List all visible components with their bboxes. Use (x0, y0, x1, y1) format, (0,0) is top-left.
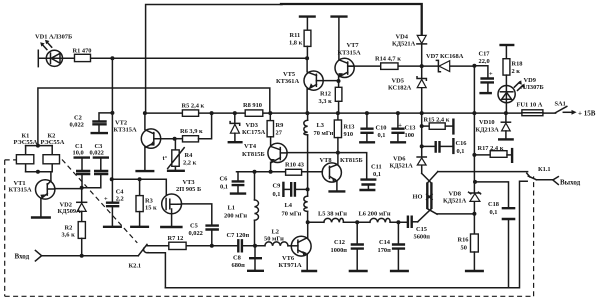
resistor R9 27 (267, 113, 283, 137)
svg-text:10,0: 10,0 (73, 150, 84, 157)
node L1 top (253, 170, 257, 174)
svg-text:VT3: VT3 (183, 179, 195, 186)
svg-text:КД521А: КД521А (443, 197, 467, 204)
svg-text:FU1 10 А: FU1 10 А (517, 102, 543, 109)
zener VD3 КС175А (230, 113, 266, 141)
node relay top (36, 144, 40, 148)
svg-text:+: + (104, 196, 108, 203)
wire y88 relay feed (38, 88, 270, 146)
ground VT3 source (160, 226, 183, 228)
svg-text:R17 2,4 к: R17 2,4 к (478, 145, 504, 152)
node C14 tap (396, 220, 400, 224)
resistor R6 3,9 к (175, 113, 212, 142)
svg-text:КД213А: КД213А (476, 126, 500, 133)
svg-text:L5 38 мГн: L5 38 мГн (318, 211, 347, 218)
svg-text:R3: R3 (145, 198, 153, 205)
wire K2.1 lower contact to bottom rail (148, 253, 166, 288)
svg-text:VT7: VT7 (347, 42, 360, 49)
node VD7 C17 (472, 64, 476, 68)
wire x421.7 vertical chain VD4..VD6 (421, 44, 423, 173)
svg-text:R5 2,4 к: R5 2,4 к (182, 103, 205, 110)
capacitor C13 100 polarized (390, 113, 415, 142)
wire emitter line y213.9 (437, 213, 474, 215)
power tap T-bar VT7 (330, 15, 347, 17)
node VT2 collector rail (143, 111, 147, 115)
resistor R16 50 (458, 234, 479, 270)
node wire y179 left (110, 177, 114, 181)
inductor L1 200 мГн (224, 172, 258, 246)
resistor R15 2,4 к with stub bar (422, 117, 454, 135)
node L4 VT6 collector (306, 220, 310, 224)
switch K2.1 (129, 244, 148, 269)
resistor R5 2,4 к (182, 103, 205, 117)
node C18 wire (473, 180, 477, 184)
transformer НО crossover top (422, 172, 438, 183)
node VD9 VD10 rail (504, 111, 508, 115)
capacitor C8 680п (232, 246, 265, 271)
wire output to connector (536, 179, 552, 181)
wire C17 corner (474, 66, 488, 78)
svg-text:C14: C14 (379, 239, 391, 246)
svg-text:C13: C13 (405, 125, 416, 132)
svg-text:680п: 680п (232, 262, 246, 269)
svg-text:C16: C16 (456, 140, 468, 147)
node C12 tap (355, 220, 359, 224)
wire VT1 base node (55, 187, 82, 190)
wire x474 vertical chain (473, 66, 475, 234)
svg-text:0,022: 0,022 (70, 122, 84, 129)
svg-text:R12: R12 (320, 91, 331, 98)
svg-text:НО: НО (413, 194, 423, 201)
svg-text:VD1 АЛ307Б: VD1 АЛ307Б (35, 34, 72, 41)
dashed shield box bottom (5, 295, 534, 297)
svg-text:5600п: 5600п (414, 234, 431, 241)
svg-text:C7 120п: C7 120п (227, 232, 250, 239)
resistor R13 910 (334, 113, 354, 153)
dashed shield box right up to K1.1 (533, 176, 535, 296)
switch SA1 (555, 101, 577, 115)
svg-text:VD3: VD3 (246, 122, 258, 129)
node C13 rail (396, 111, 400, 115)
svg-text:R13: R13 (344, 124, 355, 131)
node relay bottom (36, 170, 40, 174)
capacitor C5 0,022 (181, 204, 219, 246)
wire y179 to VT3 gate (112, 179, 167, 194)
node VD8 bottom emitter wire (472, 212, 476, 216)
svg-text:C17: C17 (479, 51, 491, 58)
wire R7 line y245.8 (147, 245, 265, 247)
svg-text:L4: L4 (285, 202, 293, 209)
LED VD1 АЛ307Б (35, 34, 75, 67)
svg-text:C11: C11 (371, 164, 382, 171)
ground VT6 emitter (301, 270, 317, 272)
wire C18 bottom to rail (508, 220, 510, 288)
svg-text:2,2 к: 2,2 к (183, 160, 197, 167)
transformer НО crossover bottom (418, 209, 437, 222)
svg-text:R16: R16 (458, 237, 470, 244)
power tap T-bar R11 (299, 15, 316, 17)
resistor R1 470 (73, 48, 92, 62)
svg-text:200 мГн: 200 мГн (224, 213, 247, 220)
capacitor C14 170п (378, 222, 409, 271)
svg-text:C9: C9 (273, 183, 281, 190)
svg-text:КТ971А: КТ971А (279, 262, 302, 269)
diode VD2 КД509А (58, 189, 87, 222)
node R1/x112 (110, 56, 114, 60)
svg-text:R11: R11 (290, 32, 301, 39)
dashed link K2 to K2.1 (62, 160, 137, 243)
zener VD7 КС168А (426, 53, 464, 72)
wire relay common top (26, 145, 53, 147)
transistor VT5 КТ361А (276, 58, 339, 113)
node C5 tap (210, 244, 214, 248)
power tap T-bar R18 (499, 44, 514, 46)
svg-text:0,1: 0,1 (220, 184, 228, 191)
svg-text:VT5: VT5 (283, 71, 295, 78)
svg-text:VD10: VD10 (479, 119, 495, 126)
svg-text:VD5: VD5 (392, 78, 404, 85)
inductor L5 38 мГн (318, 211, 347, 223)
svg-text:C10: C10 (376, 125, 387, 132)
node VT5 emitter L3 rail (305, 111, 309, 115)
svg-text:VT8: VT8 (320, 157, 332, 164)
wire C18 top feed (475, 182, 509, 208)
node R8 left VD3 (233, 111, 237, 115)
svg-text:R4: R4 (185, 152, 194, 159)
node R15 tap (420, 124, 424, 128)
inductor L4 70 мГн (282, 196, 308, 222)
svg-text:100: 100 (405, 132, 415, 139)
relay coil K2 РЭС55А (41, 132, 65, 171)
capacitor C7 120п (227, 232, 250, 253)
resistor R14 4,7 к (375, 56, 401, 70)
svg-text:910: 910 (344, 131, 354, 138)
node R9 rail (268, 111, 272, 115)
ground VD10 (498, 138, 514, 140)
diode VD8 КД521А (443, 190, 481, 204)
svg-text:15 к: 15 к (145, 205, 157, 212)
svg-text:Вход: Вход (15, 253, 30, 261)
svg-text:50 мГн: 50 мГн (264, 236, 284, 243)
svg-text:L1: L1 (228, 205, 235, 212)
svg-text:C2: C2 (74, 115, 82, 122)
svg-text:КТ815Б: КТ815Б (340, 157, 363, 164)
dashed shield box left (4, 160, 6, 296)
svg-text:0,1: 0,1 (378, 132, 386, 139)
capacitor C18 0,1 (488, 201, 515, 219)
svg-text:R7 12: R7 12 (168, 235, 184, 242)
svg-text:1000п: 1000п (331, 247, 348, 254)
svg-text:R8 910: R8 910 (243, 102, 262, 109)
node C9 L3 L4 (306, 187, 310, 191)
svg-text:2,2: 2,2 (116, 196, 124, 203)
capacitor C11 0,1 (359, 164, 381, 191)
svg-text:C12: C12 (334, 239, 345, 246)
inductor L3 70 мГн (304, 113, 334, 137)
svg-text:R2: R2 (65, 225, 73, 232)
capacitor C2 0,022 (70, 113, 113, 133)
node input R2 (80, 254, 84, 258)
transistor VT8 КТ815Б (320, 153, 363, 191)
svg-text:L2: L2 (272, 229, 279, 236)
resistor R8 910 (243, 102, 263, 116)
svg-text:R9: R9 (276, 122, 284, 129)
svg-text:+: + (398, 122, 402, 129)
LED VD9 АЛ307Б (498, 77, 544, 113)
svg-text:SA1: SA1 (555, 101, 566, 108)
svg-text:R15 2,4 к: R15 2,4 к (424, 117, 450, 124)
ground VT2 emitter (135, 170, 154, 172)
svg-text:2 к: 2 к (512, 68, 521, 75)
switch K1.1 (527, 166, 551, 180)
node x474 rail (472, 111, 476, 115)
node VT2 base R6 R4 (173, 137, 177, 141)
capacitor C16 0,1 with stub bar (422, 138, 468, 155)
svg-text:К2.1: К2.1 (129, 263, 142, 270)
inductor L6 200 мГн (359, 211, 391, 223)
transistor VT7 КТ315А (335, 17, 361, 88)
svg-text:КС182А: КС182А (388, 85, 412, 92)
svg-text:R14 4,7 к: R14 4,7 к (375, 56, 401, 63)
wire collector line y171.6 (438, 171, 528, 173)
svg-text:VD7 КС168А: VD7 КС168А (426, 53, 464, 60)
svg-text:VD8: VD8 (449, 190, 461, 197)
wire top rail thin part (146, 5, 282, 114)
transformer НО core bars (427, 182, 431, 209)
diode VD6 КД521А (390, 156, 427, 170)
svg-text:L6 200 мГн: L6 200 мГн (359, 211, 391, 218)
svg-text:КТ815Б: КТ815Б (242, 151, 265, 158)
wire bottom return rail (165, 181, 527, 288)
capacitor C10 0,1 (359, 113, 386, 142)
node C10 rail (365, 111, 369, 115)
diode VD10 КД213А (476, 113, 511, 138)
wire top rail thick part (281, 4, 422, 35)
svg-text:C8: C8 (233, 255, 241, 262)
wire VT7 emitter to R14 (348, 65, 475, 67)
ground C4 (103, 226, 122, 228)
thermistor R4 2,2 к (163, 139, 197, 170)
svg-text:0,1: 0,1 (490, 209, 498, 216)
svg-text:К1.1: К1.1 (538, 166, 551, 173)
svg-text:VD4: VD4 (396, 34, 409, 41)
svg-text:КТ315А: КТ315А (114, 127, 137, 134)
output connector Выход (553, 177, 581, 187)
wire relay common bottom to VT1 collector (26, 172, 51, 181)
node R17 tap (472, 153, 476, 157)
capacitor C9 0,1 with stub bar (273, 182, 309, 198)
input connector Вход (15, 250, 42, 261)
svg-text:170п: 170п (378, 247, 392, 254)
svg-text:0,1: 0,1 (373, 171, 381, 178)
zener VD5 КС182А (388, 77, 426, 92)
capacitor C3 0,022 (82, 143, 109, 188)
wire y58 from LED to VT5 collector (63, 57, 308, 59)
svg-text:0,1: 0,1 (273, 191, 281, 198)
svg-text:50: 50 (461, 245, 467, 252)
node VT1 base (80, 186, 84, 190)
node R12 R13 rail (336, 111, 340, 115)
fuse FU1 10 A (517, 102, 543, 116)
svg-text:КД521А: КД521А (392, 41, 416, 48)
resistor R10 43 (285, 162, 304, 176)
svg-text:C5: C5 (190, 223, 198, 230)
transistor VT1 КТ315А (9, 180, 55, 217)
ground R16 (465, 270, 484, 272)
svg-text:КТ315А: КТ315А (338, 50, 361, 57)
mosfet VT3 2П905Б (162, 179, 201, 226)
diode VD4 КД521А (392, 34, 427, 48)
resistor R18 2 к (503, 45, 523, 86)
ground VT8 emitter (328, 190, 345, 192)
svg-text:0,022: 0,022 (189, 230, 203, 237)
svg-text:VT2: VT2 (115, 120, 127, 127)
svg-text:+ 15В: + 15В (578, 110, 596, 118)
relay coil K1 РЭС55А (14, 132, 38, 171)
resistor R17 2,4 к with stub bar (474, 145, 512, 163)
node C2 tap (110, 111, 114, 115)
ground R4 (167, 170, 185, 172)
node VD5 rail (420, 111, 424, 115)
resistor R2 3,6 к (62, 222, 86, 256)
svg-text:КД509А: КД509А (58, 208, 82, 215)
capacitor C4 2,2 polarized (104, 179, 124, 225)
svg-text:70 мГн: 70 мГн (314, 130, 334, 137)
node VT7 base R12 (337, 79, 341, 83)
ground VT1 emitter (31, 216, 51, 218)
transformer НО X mark (427, 194, 433, 199)
transistor VT2 КТ315А (114, 113, 175, 170)
capacitor C15 5600п (408, 216, 430, 241)
ground R3 (130, 226, 149, 228)
svg-text:R18: R18 (512, 61, 523, 68)
svg-text:R1 470: R1 470 (73, 48, 92, 55)
capacitor C1 10,0 (73, 143, 91, 188)
svg-text:2П 905 Б: 2П 905 Б (176, 186, 201, 193)
svg-text:t°: t° (163, 155, 168, 162)
svg-text:Выход: Выход (560, 179, 581, 187)
resistor R7 12 (168, 235, 187, 250)
ground VD3 (228, 141, 243, 143)
svg-text:C18: C18 (488, 201, 499, 208)
svg-text:C6: C6 (220, 176, 229, 183)
wire input Вход line (42, 255, 139, 257)
svg-text:0,022: 0,022 (90, 150, 104, 157)
svg-text:АЛ307Б: АЛ307Б (521, 84, 544, 91)
wire L3-L4 vertical (307, 135, 309, 196)
node C16 tap (420, 144, 424, 148)
transistor VT6 КТ971А (279, 222, 312, 269)
node C7 L1 C8 (253, 244, 257, 248)
wire VT4 base y152.6 to C11 (287, 153, 367, 179)
svg-text:1,8 к: 1,8 к (289, 40, 303, 47)
svg-text:КС175А: КС175А (242, 129, 266, 136)
wire y222.3 L5 L6 row (308, 221, 408, 223)
svg-text:КД521А: КД521А (390, 162, 414, 169)
node VT5 collector (305, 56, 309, 60)
svg-text:0,1: 0,1 (457, 148, 465, 155)
capacitor C6 0,1 (220, 172, 247, 194)
svg-text:КТ315А: КТ315А (9, 187, 32, 194)
svg-text:+: + (489, 71, 493, 78)
node VT8 collector R13 (336, 151, 340, 155)
wire x112 vertical from R1 node down (111, 58, 113, 179)
resistor R3 15 к (136, 179, 157, 225)
svg-text:КТ361А: КТ361А (276, 78, 299, 85)
svg-text:C4: C4 (116, 189, 125, 196)
svg-text:VT4: VT4 (244, 143, 257, 150)
transistor VT4 КТ815Б (242, 137, 287, 172)
inductor L2 50 мГн (264, 229, 291, 246)
svg-text:VD9: VD9 (524, 77, 536, 84)
svg-text:22,0: 22,0 (479, 58, 490, 65)
svg-text:3,3 к: 3,3 к (319, 98, 333, 105)
node VT4 emitter (269, 170, 273, 174)
node R3 top (138, 177, 142, 181)
node dots (36, 56, 508, 257)
node VD4 VD7 (420, 64, 424, 68)
svg-text:70 мГн: 70 мГн (282, 211, 302, 218)
capacitor C17 22,0 polarized (479, 51, 495, 94)
svg-text:C15: C15 (416, 226, 427, 233)
dashed stub to relay K1 (5, 159, 17, 161)
node R5 right rail (210, 111, 214, 115)
wire y171.8 C6/L1/R10 to VT8 base (237, 171, 323, 173)
svg-text:27: 27 (276, 130, 283, 137)
capacitor C12 1000п (331, 222, 368, 271)
svg-text:R10 43: R10 43 (285, 162, 304, 169)
resistor R11 1,8 к (289, 17, 311, 59)
svg-text:3,6 к: 3,6 к (62, 232, 76, 239)
svg-text:L3: L3 (317, 122, 324, 129)
wire main +15V rail y113 (145, 112, 556, 114)
resistor R12 3,3 к (319, 87, 342, 113)
svg-text:R6 3,9 к: R6 3,9 к (180, 128, 203, 135)
